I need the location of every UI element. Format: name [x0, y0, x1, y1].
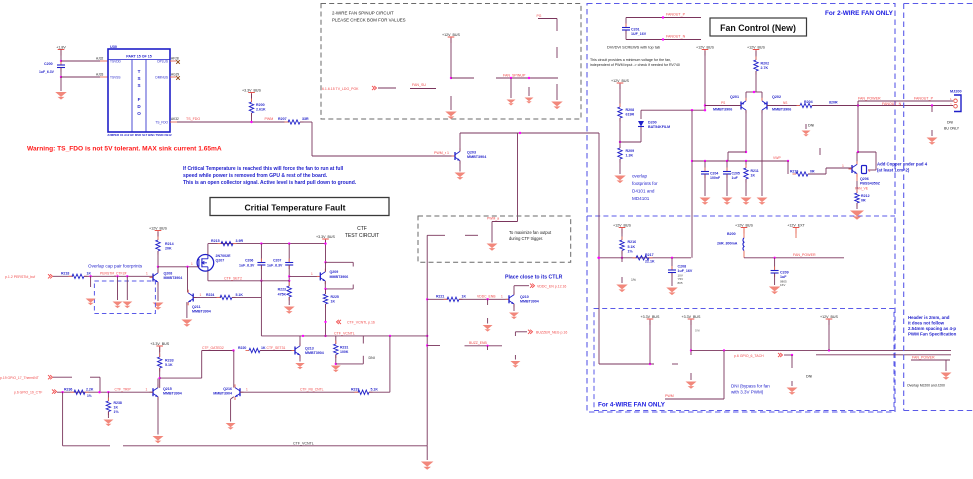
svg-text:3.9R: 3.9R [236, 239, 244, 243]
wire Q209 base [289, 275, 320, 277]
svg-text:1uF_16V: 1uF_16V [678, 269, 693, 273]
wire PG down [556, 19, 558, 32]
wire R202 to emitters [755, 71, 757, 92]
capacitor C201 [625, 24, 627, 28]
wire 3V3 to Q209 [325, 240, 327, 262]
box for 4-wire fan only [594, 309, 894, 411]
wire C206 top [260, 244, 262, 262]
wire FB riser [389, 336, 391, 392]
wire spinup right [451, 77, 474, 79]
svg-text:+12V_BUS: +12V_BUS [611, 79, 629, 83]
resistor R209 [619, 145, 621, 149]
junction R208/R209 [619, 141, 621, 143]
junction FB riser [389, 335, 391, 337]
svg-text:1uF_6.3V: 1uF_6.3V [39, 70, 55, 74]
svg-text:1UF_16V: 1UF_16V [631, 32, 647, 36]
junction vcntl drop [61, 391, 63, 393]
svg-text:6.1.6.15 TV_LDO_POK: 6.1.6.15 TV_LDO_POK [322, 87, 359, 91]
svg-text:T: T [138, 69, 141, 74]
wire stub [487, 346, 489, 350]
svg-text:This is an open collector sign: This is an open collector signal. Active… [183, 180, 357, 186]
svg-text:AJ32: AJ32 [96, 57, 103, 61]
ground C205 [722, 198, 733, 205]
svg-text:1.3K: 1.3K [626, 154, 634, 158]
junction base rail lower [704, 109, 706, 111]
wire to R210 [787, 161, 789, 174]
ground R231 [331, 366, 341, 373]
svg-text:TSVDD: TSVDD [110, 60, 122, 64]
svg-text:FANOUT_N: FANOUT_N [666, 35, 686, 39]
wire VDDC_ENB [459, 298, 509, 300]
svg-text:Q216: Q216 [223, 387, 232, 391]
wire mid vertical x427 [426, 235, 428, 445]
wire C201 bottom [625, 31, 627, 40]
svg-text:during CTF trigger.: during CTF trigger. [509, 236, 543, 241]
wire stub gnd [690, 373, 692, 380]
chevron ThermINT [48, 375, 53, 379]
wire 12V riser [828, 320, 830, 350]
ground cap b [113, 302, 123, 309]
capacitor C209 [774, 267, 776, 271]
wire TS_FDO net [177, 121, 289, 123]
wire FAN_POWER label tie [911, 359, 950, 361]
junction rail end [426, 335, 428, 337]
svg-text:MMBT3904: MMBT3904 [163, 392, 182, 396]
svg-text:JUMPER X1 A12 HF MVD SLT BIN1: JUMPER X1 A12 HF MVD SLT BIN1 TSMC FB12 [107, 133, 172, 137]
wire CTF_TRIP [57, 391, 153, 393]
wire DNI jog [336, 363, 364, 365]
svg-text:Q208: Q208 [164, 272, 173, 276]
wire FAN_SPINUP [496, 77, 558, 79]
wire to Q206 collector [857, 101, 859, 152]
junction VWP rail [691, 160, 693, 162]
resistor R236 [71, 391, 75, 393]
junction R211 [745, 160, 747, 162]
wire VDDC_EN [514, 285, 529, 287]
wire Q211 emitter [186, 302, 188, 318]
wire Q211 base [193, 296, 221, 298]
junction VDDC_ENB [486, 298, 488, 300]
wire C209 bottom [774, 274, 776, 286]
resistor R221 [444, 298, 448, 300]
svg-text:820R: 820R [829, 101, 838, 105]
svg-text:C206: C206 [245, 258, 253, 262]
svg-text:DNI: DNI [369, 356, 375, 360]
wire Q206 emitter [856, 174, 858, 181]
resistor R204 [797, 105, 801, 107]
svg-text:FANOUT_N: FANOUT_N [882, 102, 902, 106]
svg-text:1: 1 [146, 272, 148, 276]
junction CTF_SET2 [260, 280, 262, 282]
svg-text:PWM_a: PWM_a [487, 216, 499, 220]
svg-text:PWM: PWM [265, 117, 274, 121]
ground Q213 [295, 363, 305, 369]
svg-text:CTF_VCNTL p.16: CTF_VCNTL p.16 [347, 321, 375, 325]
svg-text:Add Copper under pad 4: Add Copper under pad 4 [877, 162, 928, 167]
wire B200 to rail [743, 251, 745, 258]
wire collector jog [728, 151, 746, 153]
chevron TV_LDO_POK [372, 86, 377, 90]
svg-text:Fan Control (New): Fan Control (New) [720, 23, 796, 33]
wire Q202 collector [761, 110, 763, 196]
ground R223 [284, 307, 295, 314]
wire Q203 collector [459, 133, 461, 151]
wire to R221 [427, 298, 448, 300]
svg-text:R233: R233 [165, 358, 174, 362]
svg-text:R238: R238 [114, 401, 122, 405]
wire CTF_VCNTL bottom a [63, 445, 110, 447]
wire FANOUT_N [626, 39, 701, 41]
wire FAN_POWER lower [812, 105, 953, 107]
svg-text:DVI/DVI SCREWS with top tab: DVI/DVI SCREWS with top tab [607, 44, 660, 49]
ground cap c [122, 302, 132, 309]
svg-text:5.1K: 5.1K [236, 293, 244, 297]
svg-text:+3.3V_BUS: +3.3V_BUS [641, 315, 660, 319]
ground DNI [802, 131, 811, 137]
capacitor C205 [726, 168, 728, 172]
svg-text:CTF: CTF [357, 226, 367, 232]
junction FANOUT_N [662, 38, 664, 40]
transistor Q210 [506, 292, 515, 308]
junction tach [791, 354, 793, 356]
transistor Q213 [292, 343, 301, 359]
svg-text:AJ33: AJ33 [96, 73, 103, 77]
wire stub to buzz [427, 345, 440, 347]
wire Q213 collector [299, 336, 301, 346]
svg-text:+3.3V_BUS: +3.3V_BUS [316, 235, 335, 239]
svg-text:S: S [137, 76, 140, 81]
transistor Q207 2N7002E [197, 254, 214, 271]
svg-text:PERSTI#_CTF2#: PERSTI#_CTF2# [100, 272, 126, 276]
ground C209 [769, 287, 781, 295]
ground Q215 [153, 436, 164, 443]
junction R225 top [324, 288, 326, 290]
transistor Q211 [188, 290, 197, 306]
svg-text:MMBT3906: MMBT3906 [330, 275, 349, 279]
wire to bottom ground [426, 446, 428, 460]
resistor R208 [619, 104, 621, 108]
ground VDDC stub [483, 325, 493, 332]
resistor R217 [633, 257, 637, 259]
ground R211 [741, 198, 752, 205]
junction node TSVSS [60, 76, 62, 78]
svg-text:For 4-WIRE FAN ONLY: For 4-WIRE FAN ONLY [598, 402, 666, 409]
ground Q208 [153, 303, 164, 310]
wire +1.8V to C200 [60, 50, 62, 65]
ground spinup a [507, 100, 516, 106]
wire stub [514, 355, 516, 360]
wire to R238 [107, 392, 109, 401]
wire dni stub a [427, 234, 445, 236]
svg-text:Header is 2mm, and: Header is 2mm, and [908, 315, 950, 320]
resistor R207 [285, 121, 289, 123]
wire +12V B down [755, 51, 757, 61]
junction Q208 collector [157, 266, 159, 268]
wire PWM [665, 398, 724, 400]
wire C205 bottom [726, 174, 728, 196]
resistor R231 [335, 341, 337, 345]
ground PG net [551, 102, 563, 110]
svg-text:DNI: DNI [695, 329, 700, 333]
junction C208 [671, 257, 673, 259]
junction gate2 [232, 349, 234, 351]
wire PWM to Q203 [312, 155, 455, 157]
wire DNI stub [672, 363, 678, 365]
wire gate [197, 266, 199, 268]
svg-text:5.1K: 5.1K [371, 387, 379, 391]
svg-text:+3.3V_BUS: +3.3V_BUS [150, 342, 169, 346]
wire PWM riser [723, 350, 725, 399]
divider fan control bottom [587, 215, 895, 217]
svg-text:805: 805 [678, 281, 683, 285]
svg-text:R209: R209 [626, 149, 635, 153]
svg-text:Q211: Q211 [192, 305, 201, 309]
wire PWM_A drop [517, 133, 519, 222]
wire to Q206 base [826, 167, 852, 169]
svg-text:R223: R223 [278, 288, 286, 292]
ground C208 [666, 288, 678, 296]
wire C204 bottom [704, 174, 706, 196]
wire FB out [369, 391, 390, 393]
svg-text:R202: R202 [761, 61, 770, 65]
wire emitter tie [746, 91, 762, 93]
chevron GPIO_6_TACH [778, 353, 783, 357]
ground MJ stub [927, 138, 938, 145]
svg-text:R215: R215 [211, 239, 220, 243]
svg-text:VDDC_EN p.12.16: VDDC_EN p.12.16 [537, 284, 566, 288]
junction cap pair b [116, 275, 118, 277]
svg-text:22.1K: 22.1K [645, 260, 655, 264]
resistor R211 [745, 165, 747, 169]
svg-text:R218: R218 [61, 272, 69, 276]
svg-text:AK32: AK32 [171, 117, 179, 121]
svg-text:1: 1 [842, 164, 844, 168]
wire pad4 loop [858, 151, 876, 153]
svg-text:PWM_r 1: PWM_r 1 [434, 151, 449, 155]
wire to R223 [288, 281, 290, 286]
svg-text:+12V_BUS: +12V_BUS [820, 315, 838, 319]
svg-text:p.6 GPIO_6_TACH: p.6 GPIO_6_TACH [734, 354, 764, 358]
junction C207 top [288, 242, 290, 244]
svg-text:it does not follow: it does not follow [908, 320, 945, 325]
wire R214 to node [157, 251, 159, 267]
wire Q203 emitter [459, 161, 461, 172]
svg-text:R211: R211 [751, 169, 759, 173]
ground C204 [700, 198, 711, 205]
svg-text:Q215: Q215 [163, 387, 172, 391]
svg-text:MD4101: MD4101 [632, 196, 650, 201]
wire R212 to ground [856, 203, 858, 209]
transistor Q215 [150, 384, 159, 400]
svg-text:To maximize fan output: To maximize fan output [509, 230, 552, 235]
wire C208 top [671, 258, 673, 270]
wire dni stub b [465, 234, 478, 236]
wire Q215 emitter [157, 397, 159, 435]
wire R231 bottom [335, 355, 337, 364]
svg-text:BU ONLY: BU ONLY [944, 126, 960, 130]
wire tach W1 [691, 349, 951, 351]
svg-text:speed while power is removed f: speed while power is removed from GPU & … [183, 173, 328, 179]
svg-text:+12V_BUS: +12V_BUS [442, 33, 460, 37]
wire down to Q203 base [311, 122, 313, 156]
wire D200 bottom tie [620, 141, 641, 143]
svg-text:Q203: Q203 [467, 151, 476, 155]
svg-text:R212: R212 [861, 194, 870, 198]
wire R211 bottom [745, 179, 747, 196]
wire +12V to R208 [619, 84, 621, 107]
transistor Q216 [235, 384, 244, 400]
wire PERSTI#_CTF2# [84, 275, 153, 277]
resistor R223 [288, 283, 290, 287]
wire stub [487, 299, 489, 305]
svg-text:R208: R208 [626, 108, 635, 112]
junction Q209 emitter [324, 261, 326, 263]
op-amp U30 IC body TS FDO [108, 45, 170, 132]
wire R200 to TS_FDO [251, 113, 253, 122]
wire ThermINT [53, 376, 72, 378]
svg-text:1uF_6.3V: 1uF_6.3V [239, 264, 255, 268]
wire R216 to rail [621, 251, 623, 258]
svg-text:TSVSS: TSVSS [110, 76, 120, 80]
junction thermint [98, 391, 100, 393]
svg-text:CTF_SET2: CTF_SET2 [224, 276, 242, 280]
junction gnd stub [931, 104, 933, 106]
junction base rail B [691, 109, 693, 111]
svg-text:MMBT3904: MMBT3904 [305, 351, 324, 355]
svg-text:+3.3V_BUS: +3.3V_BUS [242, 88, 261, 92]
resistor R210 [793, 173, 797, 175]
svg-text:1%: 1% [114, 410, 120, 414]
box For 2-WIRE FAN ONLY outline [587, 4, 895, 413]
wire Q210 emitter [513, 304, 515, 311]
svg-text:Overlap MJ200 and J200: Overlap MJ200 and J200 [907, 383, 945, 387]
svg-text:FAN_POWER: FAN_POWER [793, 253, 816, 257]
svg-text:2N7002E: 2N7002E [216, 254, 232, 258]
wire CTF set drop [260, 281, 262, 336]
wire +12V_EXT stub [795, 229, 797, 239]
resistor R214 [157, 237, 159, 241]
svg-text:DNI: DNI [808, 124, 814, 128]
svg-text:+12V_EXT: +12V_EXT [787, 223, 805, 227]
junction Q211 collector [186, 266, 188, 268]
svg-text:1: 1 [146, 387, 148, 391]
junction cap pair a [89, 275, 91, 277]
resistor R220 [246, 350, 250, 352]
transistor Q206 [849, 161, 858, 177]
wire ThermINT dni [90, 376, 100, 378]
svg-text:20K: 20K [165, 247, 172, 251]
junction base rail A [704, 104, 706, 106]
junction Q213 collector [302, 335, 304, 337]
svg-text:CTF_TRIP: CTF_TRIP [115, 387, 132, 391]
junction gate2 riser [159, 377, 161, 379]
wire R210 out [808, 173, 826, 175]
svg-text:DNI: DNI [806, 375, 812, 379]
ground cap a [86, 299, 96, 306]
wire Q216 emitter [230, 399, 232, 422]
wire Q208 emitter [157, 282, 159, 301]
svg-text:16V: 16V [780, 283, 785, 287]
wire BUZZ_ENB [465, 345, 503, 347]
svg-text:+12V_BUS: +12V_BUS [613, 223, 631, 227]
svg-text:BAT54KFILM: BAT54KFILM [648, 125, 670, 129]
junction W1 left [690, 349, 692, 351]
ground spinup [445, 112, 457, 120]
resistor R224 [217, 296, 221, 298]
junction rail left [597, 257, 599, 259]
junction emitters [753, 91, 755, 93]
svg-text:1K: 1K [462, 295, 467, 299]
svg-text:NS: NS [783, 101, 787, 105]
wire gate2 jog [160, 377, 202, 379]
wire Q209 collector [324, 281, 326, 289]
wire C207 top [288, 244, 290, 262]
svg-text:Overlap cap pair foorprints: Overlap cap pair foorprints [88, 264, 143, 269]
svg-text:overlap: overlap [632, 174, 648, 179]
svg-text:PG: PG [537, 14, 542, 18]
svg-text:footprints for: footprints for [632, 181, 658, 186]
wire TSVDD net [61, 60, 100, 62]
svg-text:B200: B200 [727, 232, 736, 236]
wire base rail lower [641, 109, 705, 111]
svg-text:AF28: AF28 [171, 57, 179, 61]
svg-text:TS_FDO: TS_FDO [155, 121, 168, 125]
ground Q202 [757, 198, 768, 205]
svg-text:R214: R214 [165, 242, 174, 246]
ground fan power [941, 373, 952, 380]
svg-text:PLEASE CHECK BOM FOR VALUES: PLEASE CHECK BOM FOR VALUES [332, 18, 406, 23]
svg-text:CTF_VCNTL: CTF_VCNTL [334, 332, 355, 336]
wire R207 out [300, 121, 312, 123]
wire R233 to Q215 [159, 368, 161, 388]
transistor Q208 [150, 270, 159, 286]
box to maximize fan output [418, 216, 571, 262]
wire CTF top rail [208, 243, 326, 245]
wire vcntl left drop [62, 392, 64, 446]
wire to ground [945, 360, 947, 371]
junction R238 [107, 391, 109, 393]
ground Q203 [455, 173, 466, 180]
svg-text:Q206: Q206 [860, 177, 869, 181]
pin stub AF28 [170, 60, 176, 62]
svg-text:R231: R231 [340, 345, 348, 349]
svg-text:0R: 0R [861, 199, 866, 203]
wire C201 top [625, 18, 627, 28]
svg-text:FAN_POWER: FAN_POWER [912, 355, 935, 359]
capacitor C200 [60, 61, 62, 65]
svg-text:VWP: VWP [773, 156, 781, 160]
svg-text:2-WIRE FAN SPINUP CIRCUIT: 2-WIRE FAN SPINUP CIRCUIT [332, 10, 394, 15]
svg-text:+3.3V_BUS: +3.3V_BUS [682, 315, 701, 319]
svg-text:Place close to its CTLR: Place close to its CTLR [505, 274, 563, 280]
ground Q211 [181, 320, 192, 327]
svg-text:MMBT3904: MMBT3904 [467, 155, 487, 159]
junction 3V3 a [649, 363, 651, 365]
wire rail FAN_VR [599, 257, 692, 259]
svg-text:MJ200: MJ200 [950, 90, 962, 94]
svg-text:DMINUS: DMINUS [155, 76, 168, 80]
svg-text:C201: C201 [631, 28, 640, 32]
wire buzzer L [514, 332, 516, 336]
pin stub AJ33 [100, 76, 108, 78]
wire Q209 emitter [325, 262, 327, 272]
diode D200 [638, 121, 644, 127]
svg-text:Q210: Q210 [520, 295, 529, 299]
svg-text:independent of PWM input -> ch: independent of PWM input -> check if nee… [590, 63, 680, 67]
svg-text:CTF_GATED2: CTF_GATED2 [202, 346, 224, 350]
svg-text:DNI: DNI [947, 120, 953, 124]
svg-text:C209: C209 [780, 270, 789, 274]
